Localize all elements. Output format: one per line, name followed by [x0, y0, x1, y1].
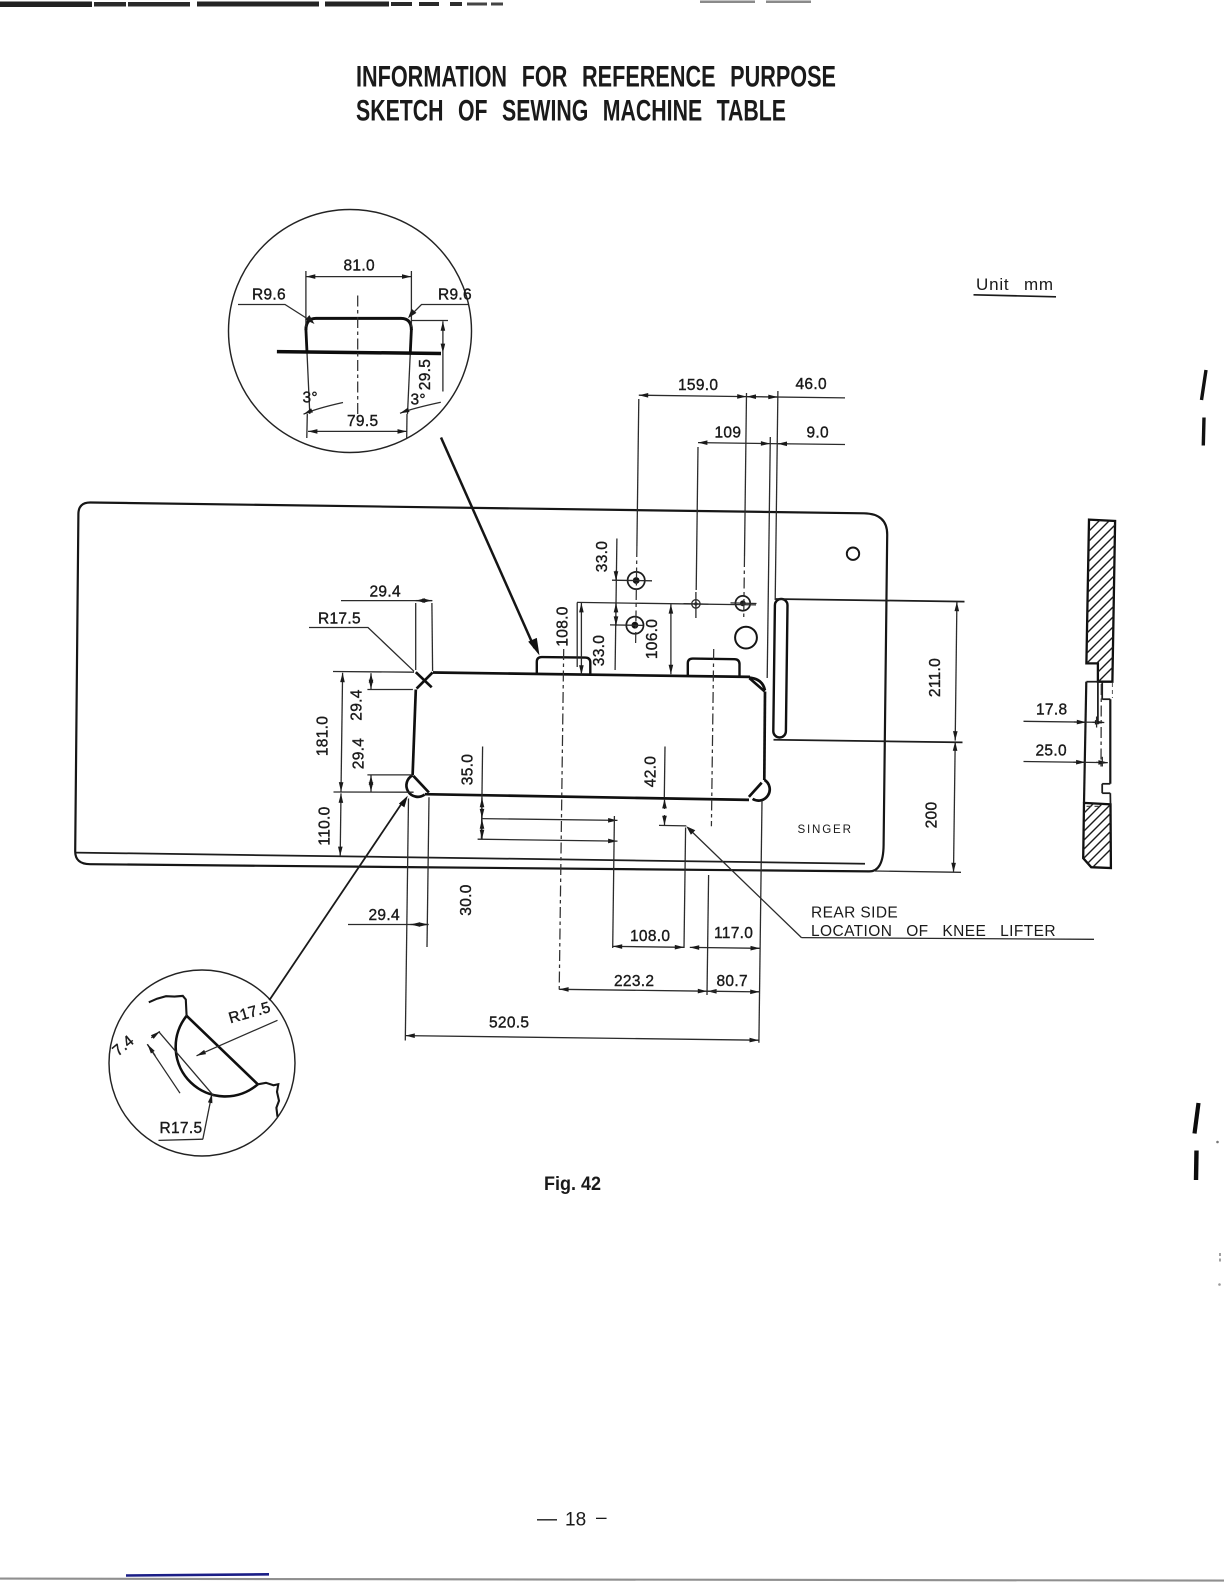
svg-text:—: —: [537, 1508, 557, 1530]
svg-text:30.0: 30.0: [458, 884, 475, 915]
svg-text:3°: 3°: [303, 390, 318, 407]
svg-text:R9.6: R9.6: [438, 287, 472, 304]
svg-text:INFORMATION FOR REFERENCE PURP: INFORMATION FOR REFERENCE PURPOSE: [356, 61, 836, 94]
svg-text:Unit mm: Unit mm: [976, 275, 1054, 294]
svg-text:–: –: [596, 1508, 607, 1529]
svg-text:108.0: 108.0: [630, 928, 670, 945]
svg-text:223.2: 223.2: [614, 973, 654, 990]
svg-text:R17.5: R17.5: [160, 1120, 203, 1137]
svg-text:29.4: 29.4: [349, 689, 366, 720]
svg-text:35.0: 35.0: [460, 754, 477, 785]
svg-text:17.8: 17.8: [1036, 702, 1067, 719]
svg-text:80.7: 80.7: [717, 973, 748, 990]
svg-text:REAR SIDE: REAR SIDE: [811, 905, 898, 922]
svg-text:29.4: 29.4: [351, 738, 368, 769]
svg-text:29.5: 29.5: [417, 359, 434, 390]
svg-text:159.0: 159.0: [678, 377, 718, 394]
svg-text:108.0: 108.0: [554, 606, 571, 646]
svg-text:200: 200: [924, 802, 941, 829]
svg-text:109: 109: [715, 425, 742, 442]
svg-text:81.0: 81.0: [344, 258, 375, 275]
svg-text:SKETCH OF SEWING MACHINE TABLE: SKETCH OF SEWING MACHINE TABLE: [356, 95, 786, 128]
svg-text:18: 18: [565, 1510, 586, 1531]
svg-text:29.4: 29.4: [370, 584, 401, 601]
svg-text:46.0: 46.0: [796, 376, 827, 393]
svg-text:211.0: 211.0: [927, 658, 944, 697]
svg-text:110.0: 110.0: [317, 806, 334, 845]
svg-text:R17.5: R17.5: [318, 611, 361, 628]
svg-text:25.0: 25.0: [1036, 743, 1067, 760]
svg-text:R9.6: R9.6: [252, 287, 286, 304]
svg-text:117.0: 117.0: [714, 925, 753, 942]
svg-text:LOCATION OF KNEE LIFTER: LOCATION OF KNEE LIFTER: [811, 923, 1056, 940]
svg-text:R17.5: R17.5: [227, 999, 273, 1027]
svg-text:520.5: 520.5: [489, 1015, 529, 1032]
svg-text:181.0: 181.0: [315, 716, 332, 756]
svg-text:33.0: 33.0: [594, 541, 611, 572]
svg-text:33.0: 33.0: [591, 635, 608, 666]
svg-text:Fig. 42: Fig. 42: [544, 1174, 601, 1195]
svg-text:29.4: 29.4: [369, 907, 400, 924]
svg-text:79.5: 79.5: [347, 413, 378, 430]
svg-text:7.4: 7.4: [110, 1032, 138, 1060]
svg-text:106.0: 106.0: [644, 619, 661, 659]
svg-text:SINGER: SINGER: [798, 823, 853, 836]
svg-text:42.0: 42.0: [643, 756, 660, 787]
svg-text:9.0: 9.0: [807, 425, 830, 442]
